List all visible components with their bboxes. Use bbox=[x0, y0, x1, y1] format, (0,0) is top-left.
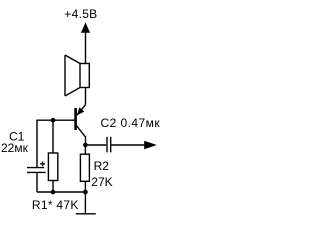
svg-text:R2: R2 bbox=[94, 159, 110, 173]
svg-text:27K: 27K bbox=[91, 175, 112, 189]
svg-text:R1* 47K: R1* 47K bbox=[32, 198, 79, 212]
svg-text:22мк: 22мк bbox=[1, 141, 29, 155]
svg-text:C2 0.47мк: C2 0.47мк bbox=[101, 116, 161, 130]
svg-text:+4.5В: +4.5В bbox=[64, 7, 97, 21]
